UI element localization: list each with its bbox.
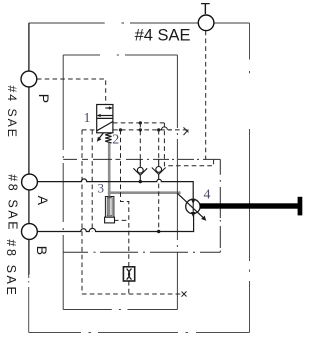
relief valve 1 body <box>97 105 113 133</box>
drain branch dashed vertical from valve bottom x120.5 <box>121 130 129 267</box>
arrow tip on header drain (X style arrow) <box>182 127 189 296</box>
hump on header over drain drop x164.4 <box>161 127 167 130</box>
junction dot B line / check valve 2 drop <box>157 230 160 233</box>
outer top edge <box>29 22 250 24</box>
manifold outer envelope (dash-dot boundary) <box>29 23 250 333</box>
port P circle <box>21 71 37 87</box>
outer right edge <box>249 23 251 333</box>
svg-text:T: T <box>201 1 211 18</box>
valve 1 modulation diagonal <box>97 122 113 131</box>
port B circle <box>22 224 38 240</box>
svg-text:2: 2 <box>112 133 119 148</box>
outer bottom edge <box>29 332 250 334</box>
work line B from port B to shutoff valve 4 (solid, humps) <box>37 214 193 232</box>
inner envelope rectangle (dash-dot boundary) <box>63 55 177 310</box>
pilot line from port P to valve 1 (dashed) <box>37 31 214 294</box>
valve 1 internal arrow to tank (top) <box>105 107 111 109</box>
drain from orifice 3 bottom cap to plug (dashed) <box>114 219 129 221</box>
handle bar of shutoff valve 4 (thick) <box>200 203 299 208</box>
spring 2 below valve 1 <box>105 133 111 143</box>
shutoff valve 4 flow arrowhead top <box>191 199 196 204</box>
svg-text:B: B <box>34 246 50 255</box>
inner left edge <box>62 55 64 310</box>
svg-text:A: A <box>35 196 51 206</box>
junction dot on upper drain line at check valve 1 column <box>139 121 142 124</box>
inner top edge <box>63 54 177 56</box>
inner cavity dashed vertical at x92 <box>91 130 93 232</box>
svg-text:#4 SAE: #4 SAE <box>135 27 191 45</box>
drain line from valve 1 right side upper (dashed) <box>113 122 164 124</box>
check valve 1 (ball and seat) <box>133 159 147 181</box>
arrow tip on bottom cavity drain (X style arrow) <box>182 291 187 296</box>
wire right drain drop vertical <box>219 159 221 252</box>
cavity box bottom dashed with arrow <box>82 293 183 295</box>
wire thick gray horizontal line to shutoff valve 4 <box>108 191 181 194</box>
outer left edge lower dash-dot below port B <box>28 274 30 333</box>
valve 1 arrowhead left <box>97 114 101 117</box>
wire bottom drain rail horizontal <box>63 251 220 253</box>
check valve 2 upper dashed column <box>158 130 160 160</box>
plug with X (bottom drain plug) <box>123 267 134 281</box>
valve 1 internal left arrow <box>99 115 113 117</box>
junction dot on header at check valve 2 column <box>157 128 160 131</box>
port P to A to B connector column (solid) <box>28 23 30 275</box>
shutoff valve 4 arrowhead on diagonal <box>201 216 206 221</box>
svg-text:1: 1 <box>84 111 91 126</box>
check valve 2 (ball and seat) <box>152 159 166 179</box>
junction dot on header at drain branch column <box>119 128 122 131</box>
svg-text:4: 4 <box>204 188 211 203</box>
inner bottom edge <box>63 309 177 311</box>
svg-text:P: P <box>36 94 52 103</box>
pilot line from port T down to drain rail (dashed) <box>205 31 207 160</box>
port T circle <box>198 15 214 31</box>
svg-text:#8 SAE: #8 SAE <box>6 174 20 232</box>
svg-text:#8 SAE: #8 SAE <box>4 239 18 297</box>
junction dot A line / check valve 1 <box>139 180 142 183</box>
orifice 3 body (vertical cartridge) <box>105 197 115 223</box>
pilot/drain header line with junction dots (dashed) <box>82 127 187 130</box>
svg-text:#4 SAE: #4 SAE <box>5 86 19 139</box>
valve 1 drain arrow lower left <box>97 133 104 142</box>
drain rail line (horizontal dash-dot rail) <box>63 159 220 252</box>
handle bar end cap <box>298 197 303 216</box>
shutoff valve 4 diagonal adjuster arrow <box>177 193 204 218</box>
wire thick gray supply line vertical from valve 1 to orifice 3 <box>108 142 181 197</box>
check valve 1 upper dashed column <box>139 123 141 159</box>
shutoff valve 4 circle <box>177 193 204 218</box>
inner right edge <box>176 55 178 310</box>
valve 1 arrowhead right <box>109 106 113 109</box>
junction dot on header at check valve 1 column <box>139 128 142 131</box>
svg-text:3: 3 <box>98 181 105 196</box>
port A circle <box>22 174 38 190</box>
drain drop right of valve going down and to rail (dashed) <box>164 123 213 166</box>
plug lower stub dashed <box>128 281 130 294</box>
check valve 2 lower dashed drop to B line <box>158 184 160 232</box>
valve 1 chamber divider <box>97 117 113 119</box>
orifice 3 bottom cap <box>105 217 115 223</box>
shutoff valve 4 flow arrowhead bottom <box>191 212 196 217</box>
cavity box left dashed vertical at x82 <box>81 130 83 294</box>
work line A from port A to shutoff valve 4 (solid, humps over dashed verticals) <box>37 179 193 232</box>
